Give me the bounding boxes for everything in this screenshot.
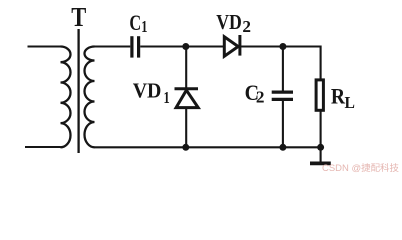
wire: bottom bus: [95, 146, 321, 148]
svg-text:CSDN @捷配科技: CSDN @捷配科技: [322, 162, 399, 173]
node: bottom junction at C2: [279, 144, 286, 151]
node: bottom junction at RL / ground: [317, 144, 324, 151]
wire: C1 to VD2 anode: [140, 45, 224, 47]
wire: RL bottom lead: [320, 112, 322, 148]
svg-text:2: 2: [256, 87, 265, 106]
capacitor C2: [272, 92, 293, 99]
label C1: [129, 10, 147, 36]
label VD1: [133, 78, 170, 107]
node: bottom junction at VD1: [182, 144, 189, 151]
node: top junction at VD1: [182, 43, 189, 50]
wire: C2 top branch from node B: [282, 47, 284, 91]
wire: VD2 cathode to top-right corner and down to RL: [241, 47, 321, 80]
wire: C2 bottom branch to bottom bus: [282, 100, 284, 148]
svg-text:1: 1: [164, 88, 170, 107]
wire: primary top lead: [28, 45, 61, 47]
svg-text:VD: VD: [133, 78, 162, 102]
svg-text:2: 2: [242, 17, 251, 36]
label C2: [245, 80, 265, 107]
label RL: [331, 83, 355, 112]
capacitor C1: [132, 36, 139, 57]
resistor RL: [316, 80, 323, 110]
wire: VD1 anode to bottom bus: [185, 108, 187, 147]
wire: VD1 branch from node A: [185, 47, 187, 88]
transformer T primary winding: [61, 47, 71, 148]
transformer T secondary winding: [85, 47, 95, 148]
svg-text:L: L: [345, 93, 355, 112]
wire: primary bottom lead: [25, 146, 61, 148]
wire: secondary top lead to C1: [95, 45, 131, 47]
svg-text:C: C: [129, 10, 141, 35]
transformer T core: [77, 29, 79, 153]
svg-text:VD: VD: [216, 10, 242, 34]
node: top junction at C2: [279, 43, 286, 50]
svg-text:1: 1: [141, 17, 147, 36]
wire: ground lead: [320, 147, 322, 161]
label VD2: [216, 10, 251, 36]
svg-text:T: T: [71, 1, 86, 32]
diode VD2: [224, 35, 240, 56]
diode VD1: [175, 89, 199, 108]
ground: [310, 162, 331, 166]
